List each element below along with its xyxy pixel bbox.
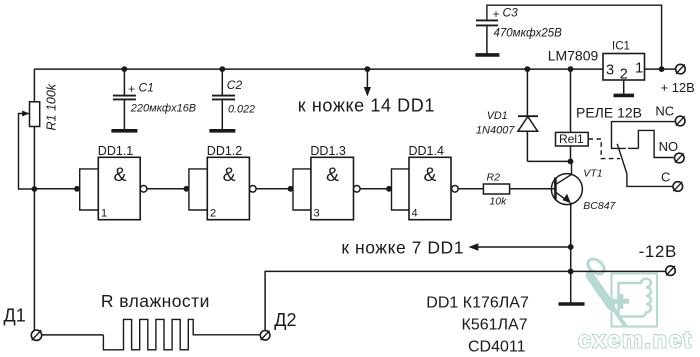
svg-text:Д1: Д1 [4,306,26,326]
svg-text:C2: C2 [227,78,243,92]
svg-text:к ножке 7 DD1: к ножке 7 DD1 [341,238,464,258]
node C1 tap [122,66,128,72]
svg-text:VD1: VD1 [487,110,508,122]
relay movable blade [617,144,627,174]
svg-text:&: & [326,164,339,186]
svg-text:0.022: 0.022 [228,104,255,116]
svg-text:DD1 К176ЛА7: DD1 К176ЛА7 [426,295,529,312]
gate DD1.4 [386,157,458,219]
svg-text:220мкфх16В: 220мкфх16В [130,102,196,114]
svg-text:DD1.2: DD1.2 [207,144,242,158]
wire DD1.2 out to DD1.3 in [256,188,293,190]
capacitor C2 0.022 [209,69,235,131]
wire: R1 wiper down to junction [19,114,35,190]
svg-text:Rel1: Rel1 [559,132,584,146]
svg-text:CD4011: CD4011 [468,339,526,356]
svg-text:&: & [114,164,127,186]
wire: blade to C terminal [627,174,673,186]
svg-text:cxem.net: cxem.net [578,327,693,353]
svg-text:NC: NC [655,103,674,118]
svg-text:DD1.3: DD1.3 [310,144,345,158]
relay coil Rel1 [556,69,589,161]
svg-text:4: 4 [412,207,418,219]
svg-text:DD1.4: DD1.4 [409,144,444,158]
wire DD1.3 out to DD1.4 in [360,188,391,190]
terminal D1 [31,330,41,340]
svg-text:-12В: -12В [639,242,677,261]
terminal C [673,182,683,192]
svg-text:+: + [128,84,135,96]
svg-text:РЕЛЕ 12В: РЕЛЕ 12В [576,104,642,120]
svg-text:VT1: VT1 [583,167,602,179]
wire: main top rail [34,68,603,70]
svg-text:&: & [223,164,236,186]
svg-text:BC847: BC847 [583,200,616,212]
humidity sensor R влажности comb [42,319,261,349]
gate DD1.3 [288,157,361,219]
svg-text:&: & [424,164,437,186]
resistor R1 100k potentiometer [22,102,40,127]
wire VD1 bottom to collector junction [527,160,570,162]
svg-text:1N4007: 1N4007 [476,124,515,136]
svg-text:DD1.1: DD1.1 [98,144,133,158]
svg-text:R влажности: R влажности [101,291,210,311]
resistor R2 10k [483,184,509,194]
capacitor C1 220uF [111,69,137,131]
wire IC1 pin1 to +12V terminal [645,68,676,70]
wire DD1.4 out to R2 [458,188,483,190]
svg-text:Д2: Д2 [274,310,296,330]
transistor VT1 BC847 [551,161,582,204]
node Rel1 tap [568,66,574,72]
ground bar below VT1 [559,302,585,306]
svg-text:3: 3 [314,207,320,219]
svg-text:470мкфх25В: 470мкфх25В [494,28,563,40]
wire: junction to DD1.1 input [34,188,79,190]
wire emitter down to ground bar [570,203,572,304]
svg-text:к ножке 14 DD1: к ножке 14 DD1 [298,96,435,116]
gate DD1.1 [74,157,147,219]
terminal -12V [666,266,676,276]
terminal +12V [676,64,686,74]
terminal NC [675,116,685,126]
terminal NO [675,153,685,163]
node arrow14 tap [365,66,371,72]
node C2 tap [219,66,225,72]
capacitor C3 470uF [475,5,661,69]
svg-text:IC1: IC1 [612,40,630,52]
node emitter/bottom rail junction [568,269,574,275]
svg-text:R1 100k: R1 100k [45,83,59,130]
svg-text:2: 2 [210,207,216,219]
wire: NO contact step to NO terminal [638,130,673,157]
node emitter/arrow7 junction [568,244,574,250]
arrow to pin 14 DD1 [364,69,371,96]
wire: left vertical R1 to D1 terminal [33,127,35,331]
node collector junction [568,159,574,165]
wire: left vertical from rail to R1 [33,69,35,102]
svg-text:10k: 10k [489,196,507,208]
svg-text:К561ЛА7: К561ЛА7 [462,317,528,334]
node: wiper junction [32,186,38,192]
wire R2 to VT1 base [510,188,555,190]
bottom rail D2 to -12V [265,271,665,330]
svg-text:1: 1 [101,207,107,219]
arrow to pin 7 DD1 [469,243,571,250]
wire: NC contact line [612,122,676,149]
svg-text:C1: C1 [139,81,154,95]
diode VD1 1N4007 [518,69,538,161]
IC1 LM7809 [603,54,645,96]
svg-text:1: 1 [635,61,643,77]
svg-text:C: C [661,169,670,184]
svg-text:NO: NO [659,139,679,154]
wire: NO fixed contact stub [628,147,639,149]
gate DD1.2 [184,157,257,219]
svg-text:LM7809: LM7809 [548,48,599,64]
svg-text:3: 3 [606,62,614,78]
dashed mechanical link Rel1 to contacts [589,139,621,159]
svg-text:+ 12В: + 12В [661,80,695,95]
node pin1 junction [659,66,665,72]
watermark cxem.net logo [585,256,657,326]
svg-text:C3: C3 [503,6,519,20]
node VD1 tap [525,66,531,72]
svg-text:R2: R2 [487,171,501,183]
wire DD1.1 out to DD1.2 in [147,188,189,190]
terminal D2 [260,331,270,341]
svg-text:+: + [493,9,500,21]
